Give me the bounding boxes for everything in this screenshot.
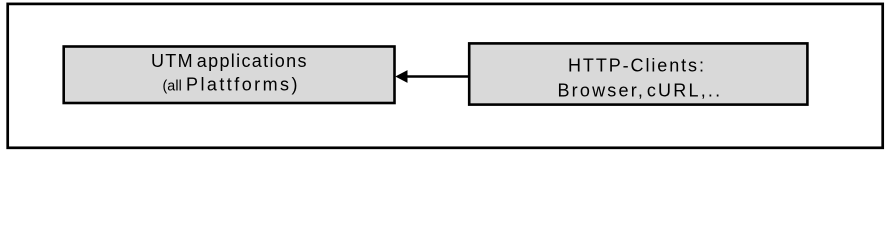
wire: arrow shaft from HTTP-Clients box to UTM box: [404, 75, 469, 78]
box: UTM applications (all Plattforms): [64, 47, 395, 104]
box: HTTP-Clients: [469, 43, 807, 104]
svg-text:HTTP-Clients:: HTTP-Clients:: [568, 55, 706, 75]
svg-text:Browser, cURL,..: Browser, cURL,..: [557, 80, 722, 100]
box rect: UTM applications: [64, 47, 395, 104]
svg-text:UTM applications: UTM applications: [151, 51, 308, 71]
outer frame: [8, 4, 883, 148]
box rect: HTTP-Clients: [469, 43, 807, 104]
arrowhead pointing left at UTM box: [395, 70, 407, 83]
